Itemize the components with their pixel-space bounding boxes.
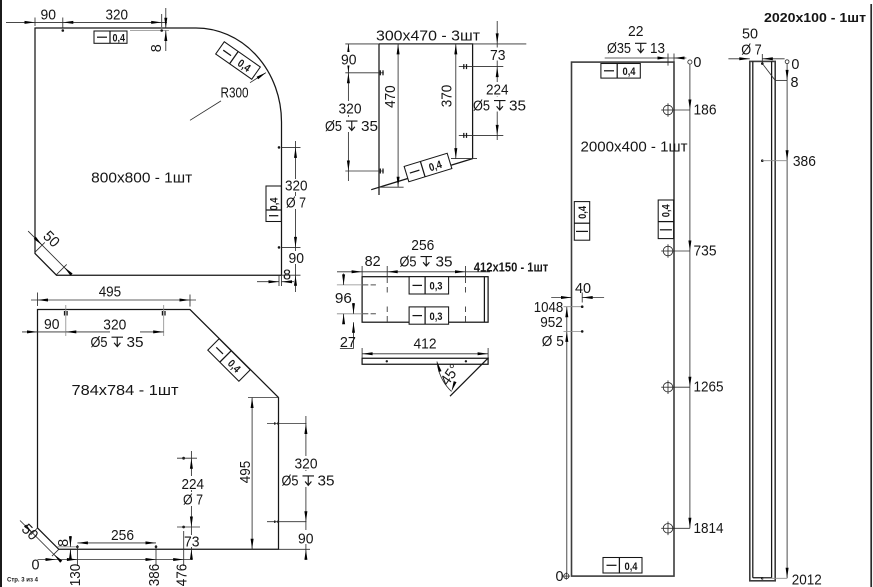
svg-text:90: 90 xyxy=(341,52,357,69)
dim 320 top xyxy=(63,6,162,27)
svg-text:Ø 7: Ø 7 xyxy=(741,41,762,58)
right hole ext upper xyxy=(267,423,307,425)
title 800x800 - 1шт xyxy=(91,169,192,186)
dim 90 right bottom xyxy=(279,522,316,560)
right hole tick upper xyxy=(275,422,278,425)
interior hole dot lower (73/476) xyxy=(182,526,185,529)
svg-text:Ø5: Ø5 xyxy=(400,253,417,270)
rotated tolerance frame 0,4 on arc xyxy=(216,42,261,80)
shared top edge / extension line xyxy=(345,43,526,45)
vertical tolerance frame 0,4 right edge xyxy=(266,186,281,222)
ordinate 735 xyxy=(673,241,717,260)
chamfer dim 50 xyxy=(28,228,72,276)
inner line right xyxy=(771,61,773,577)
dim 320 right xyxy=(293,416,318,522)
angle dim 45deg with arc xyxy=(436,361,464,392)
label Ø35 depth 13 xyxy=(607,40,665,57)
svg-text:8: 8 xyxy=(148,44,165,52)
bevel extension 45deg xyxy=(450,358,489,397)
svg-text:320: 320 xyxy=(103,316,126,333)
dim 320 top (hole spacing) xyxy=(66,305,164,336)
svg-text:22: 22 xyxy=(628,23,644,40)
svg-text:130: 130 xyxy=(67,564,84,587)
dim 73 right xyxy=(490,21,506,140)
svg-text:256: 256 xyxy=(411,237,434,254)
title 784x784 - 1шт xyxy=(72,382,179,399)
dim 320 right xyxy=(284,141,308,247)
svg-text:0,4: 0,4 xyxy=(661,204,673,218)
dim 8 top right (hole offset from top edge) xyxy=(130,8,169,52)
right hole ext line lower xyxy=(459,134,504,136)
row ext line 2 xyxy=(337,313,362,315)
side view strip xyxy=(362,358,488,364)
svg-text:412: 412 xyxy=(414,335,437,352)
svg-text:256: 256 xyxy=(111,527,134,544)
tolerance frame 0,3 lower xyxy=(409,307,449,324)
right hole tick lower xyxy=(464,133,467,138)
ext line at interior hole upper xyxy=(177,457,197,459)
right side hole ext line lower xyxy=(282,246,301,248)
right hole tick upper xyxy=(464,64,467,69)
svg-text:784x784 - 1шт: 784x784 - 1шт xyxy=(72,382,179,399)
tolerance frame 0,4 bottom xyxy=(603,558,642,574)
svg-text:2020x100 - 1шт: 2020x100 - 1шт xyxy=(764,10,866,25)
svg-text:73: 73 xyxy=(490,47,506,64)
part outline 2000x400 xyxy=(572,62,675,576)
hole dot at 2012 xyxy=(761,577,764,580)
svg-text:495: 495 xyxy=(237,461,254,484)
svg-text:Ø5: Ø5 xyxy=(325,118,342,135)
page right border xyxy=(870,4,872,587)
hole dot at 386 xyxy=(761,159,764,162)
svg-text:300x470 - 3шт: 300x470 - 3шт xyxy=(376,28,480,45)
svg-text:90: 90 xyxy=(289,250,305,267)
dim 256 bottom xyxy=(77,527,156,544)
svg-text:2012: 2012 xyxy=(792,571,822,587)
ordinate baseline bottom xyxy=(38,559,191,561)
svg-text:370: 370 xyxy=(439,85,456,108)
svg-text:Стр. 3 из 4: Стр. 3 из 4 xyxy=(7,578,39,584)
label Ø5 depth 35 top xyxy=(91,334,144,351)
svg-text:Ø 7: Ø 7 xyxy=(183,492,203,509)
hole row marks row1 xyxy=(363,284,376,286)
dim 8 bottom right (hole offset from right edge) xyxy=(257,267,294,287)
svg-text:82: 82 xyxy=(365,253,381,270)
svg-text:0,3: 0,3 xyxy=(430,281,443,293)
hole ⊕ at 1265 xyxy=(661,380,675,394)
hole dot 952 xyxy=(581,330,584,333)
bottom hole dot at 386 xyxy=(155,546,158,549)
label Ø7 right xyxy=(285,195,306,212)
title 2020x100 - 1шт xyxy=(764,10,866,25)
svg-text:1265: 1265 xyxy=(694,379,724,396)
dim 90 top xyxy=(6,6,167,28)
svg-text:0: 0 xyxy=(556,568,564,585)
svg-text:8: 8 xyxy=(55,539,72,547)
svg-text:0,3: 0,3 xyxy=(430,311,443,323)
part outline 412x150 top view xyxy=(362,277,488,323)
label Ø5 depth 35 top xyxy=(400,253,453,270)
dim 96 left xyxy=(335,274,352,325)
svg-text:320: 320 xyxy=(295,456,318,473)
left hole ext line lower xyxy=(345,170,383,172)
svg-text:35: 35 xyxy=(361,118,378,135)
svg-text:Ø5: Ø5 xyxy=(473,97,490,114)
svg-text:Ø 7: Ø 7 xyxy=(286,195,306,212)
vertical tolerance frame 0,4 left mid xyxy=(574,202,589,241)
page left border xyxy=(0,0,2,587)
row ext line 1 xyxy=(337,284,362,286)
svg-text:0: 0 xyxy=(791,56,799,73)
hole column marks right column xyxy=(465,278,467,322)
hole ⊕ at 186 xyxy=(661,103,675,117)
ordinate dim line right xyxy=(689,64,691,528)
svg-text:320: 320 xyxy=(106,6,129,23)
dim 40 left xyxy=(551,280,604,302)
bottom hole dot at 130 xyxy=(76,546,79,549)
svg-text:386: 386 xyxy=(146,564,163,587)
svg-text:0: 0 xyxy=(693,54,701,71)
label Ø7 top xyxy=(741,41,762,58)
right hole ext line upper xyxy=(459,66,504,68)
label Ø5 depth 35 right xyxy=(473,97,526,115)
svg-text:Ø5: Ø5 xyxy=(91,334,108,351)
inner bottom line xyxy=(753,577,772,579)
ordinate 2012 xyxy=(762,568,822,587)
inner line left xyxy=(752,61,754,577)
dim 470 xyxy=(379,44,404,187)
dim 27 left xyxy=(340,303,356,351)
hole ⊕ at 1814 xyxy=(661,522,675,536)
rotated tolerance frame 0,4 on slant xyxy=(404,153,452,181)
rotated tolerance frame 0,4 on diagonal xyxy=(208,339,250,381)
dim 224 right xyxy=(485,82,510,136)
left hole ext line upper xyxy=(345,72,383,74)
tolerance frame 0,3 upper xyxy=(409,277,449,294)
svg-text:35: 35 xyxy=(436,253,453,270)
svg-text:35: 35 xyxy=(127,334,144,351)
svg-text:0: 0 xyxy=(32,557,40,574)
right side hole ext line upper xyxy=(282,146,301,148)
dim 412 xyxy=(362,335,488,358)
label Ø5 depth 35 left xyxy=(325,117,378,135)
left ordinate dim line xyxy=(566,307,568,574)
dim 256 text xyxy=(411,237,434,254)
svg-text:952: 952 xyxy=(540,314,563,331)
side view hole dot left xyxy=(386,360,388,362)
ordinate 1048 xyxy=(534,299,583,317)
svg-text:0,4: 0,4 xyxy=(577,205,589,219)
svg-text:224: 224 xyxy=(182,476,205,493)
hole dot 1048 xyxy=(581,305,584,308)
left hole tick upper xyxy=(380,70,383,75)
svg-text:495: 495 xyxy=(99,284,122,301)
svg-text:476: 476 xyxy=(173,564,190,587)
top dim line (82 / 256) xyxy=(337,266,490,277)
svg-text:Ø5: Ø5 xyxy=(282,473,299,490)
ordinate 476 xyxy=(173,531,190,586)
right hole tick lower xyxy=(275,520,278,523)
svg-text:735: 735 xyxy=(694,243,717,260)
tolerance frame 0,4 top xyxy=(601,64,640,79)
part outline 784x784 with 45deg corner cut and 50 chamfer xyxy=(38,310,279,550)
svg-text:8: 8 xyxy=(283,267,291,284)
dim 495 top xyxy=(31,284,196,307)
svg-text:0,4: 0,4 xyxy=(268,197,280,211)
dim 8 bottom left (hole offset) xyxy=(55,536,78,560)
ordinate origin 0 top right xyxy=(688,54,702,71)
ordinate origin 0 label xyxy=(32,557,57,574)
svg-text:186: 186 xyxy=(694,102,717,119)
title 412x150 - 1шт xyxy=(474,260,549,275)
ordinate dim line right xyxy=(786,64,788,579)
hole tick top right xyxy=(162,311,165,316)
svg-text:90: 90 xyxy=(41,6,57,23)
hole column marks left column xyxy=(386,278,388,322)
dim 370 xyxy=(439,44,477,159)
ordinate 130 xyxy=(67,545,84,586)
svg-text:40: 40 xyxy=(575,280,591,297)
dim 82 text xyxy=(365,253,381,270)
svg-text:8: 8 xyxy=(791,74,799,91)
part outline 300x470 trapezoid xyxy=(371,44,472,195)
bevel inner line right xyxy=(483,277,485,323)
dim 73 vertical xyxy=(184,533,200,560)
svg-text:50: 50 xyxy=(742,26,758,43)
left hole tick lower xyxy=(380,169,383,174)
page footer text xyxy=(7,578,39,584)
ordinate 8 with bent leader xyxy=(762,64,798,92)
ordinate origin 0 top xyxy=(785,56,799,73)
svg-text:35: 35 xyxy=(509,97,526,114)
svg-text:R300: R300 xyxy=(221,85,249,102)
vertical tolerance frame 0,4 right mid xyxy=(658,200,673,239)
svg-text:90: 90 xyxy=(44,316,60,333)
dim 90 right bottom xyxy=(282,247,306,292)
svg-text:35: 35 xyxy=(318,473,335,490)
hole dot at 8 xyxy=(761,62,764,65)
dim 495 vertical (corner height) xyxy=(237,398,279,550)
svg-text:2000x400 - 1шт: 2000x400 - 1шт xyxy=(581,138,688,155)
hole dot top right xyxy=(160,29,163,32)
svg-text:1814: 1814 xyxy=(694,520,724,537)
svg-text:Ø 5: Ø 5 xyxy=(542,333,564,350)
R300 leader with arrow to arc xyxy=(190,71,267,120)
hole row marks row2 xyxy=(363,313,376,315)
dim 320 left xyxy=(337,73,362,171)
hole ⊕ at 735 xyxy=(661,244,675,258)
svg-text:224: 224 xyxy=(486,82,509,99)
svg-text:386: 386 xyxy=(793,153,816,170)
ordinate 186 xyxy=(673,100,717,119)
hole dot right upper xyxy=(278,146,281,149)
hole tick top left xyxy=(65,311,68,316)
svg-text:800x800 - 1шт: 800x800 - 1шт xyxy=(91,169,192,186)
title 300x470 - 3шт xyxy=(376,28,480,45)
svg-text:0,4: 0,4 xyxy=(113,32,126,44)
dim 90 left xyxy=(340,44,357,181)
ordinate 952 xyxy=(540,314,583,342)
dim 22 top xyxy=(605,23,687,66)
R300 text xyxy=(221,85,249,102)
ordinate 1814 xyxy=(673,518,724,537)
svg-text:96: 96 xyxy=(335,290,352,307)
svg-text:320: 320 xyxy=(285,178,308,195)
svg-text:0,4: 0,4 xyxy=(625,561,639,573)
ordinate origin 0 bottom left xyxy=(556,568,570,585)
svg-text:412x150 - 1шт: 412x150 - 1шт xyxy=(474,260,549,275)
ext line at interior hole lower xyxy=(177,526,200,528)
dim 90 top left xyxy=(22,316,66,333)
svg-text:73: 73 xyxy=(184,533,200,550)
dim 50 top xyxy=(728,26,784,65)
label Ø7 xyxy=(182,492,204,509)
svg-text:90: 90 xyxy=(298,530,314,547)
svg-text:320: 320 xyxy=(339,101,362,118)
title 2000x400 - 1шт xyxy=(581,138,688,155)
svg-text:Ø35: Ø35 xyxy=(607,40,631,57)
interior hole dot upper (224/476) xyxy=(182,457,185,460)
chamfer dim 50 bottom left xyxy=(18,521,62,563)
right hole ext lower xyxy=(267,521,307,523)
hole dot top left xyxy=(62,29,65,32)
ordinate 386 xyxy=(762,150,816,170)
svg-text:13: 13 xyxy=(650,40,665,57)
part outline 2020x100 xyxy=(750,61,775,580)
part outline 800x800 with R300 corner and 50 chamfer xyxy=(35,28,282,275)
ordinate 386 xyxy=(146,545,163,586)
straightness tolerance frame 0,4 top xyxy=(94,31,127,44)
side view hole dot right xyxy=(465,360,467,362)
hole dot right lower xyxy=(278,246,281,249)
ordinate 1265 xyxy=(673,377,724,396)
svg-text:0,4: 0,4 xyxy=(623,66,637,78)
label Ø5 left xyxy=(542,333,564,350)
dim 224 vertical xyxy=(181,451,204,560)
svg-text:470: 470 xyxy=(382,85,399,108)
label Ø5 depth 35 right xyxy=(280,471,335,490)
